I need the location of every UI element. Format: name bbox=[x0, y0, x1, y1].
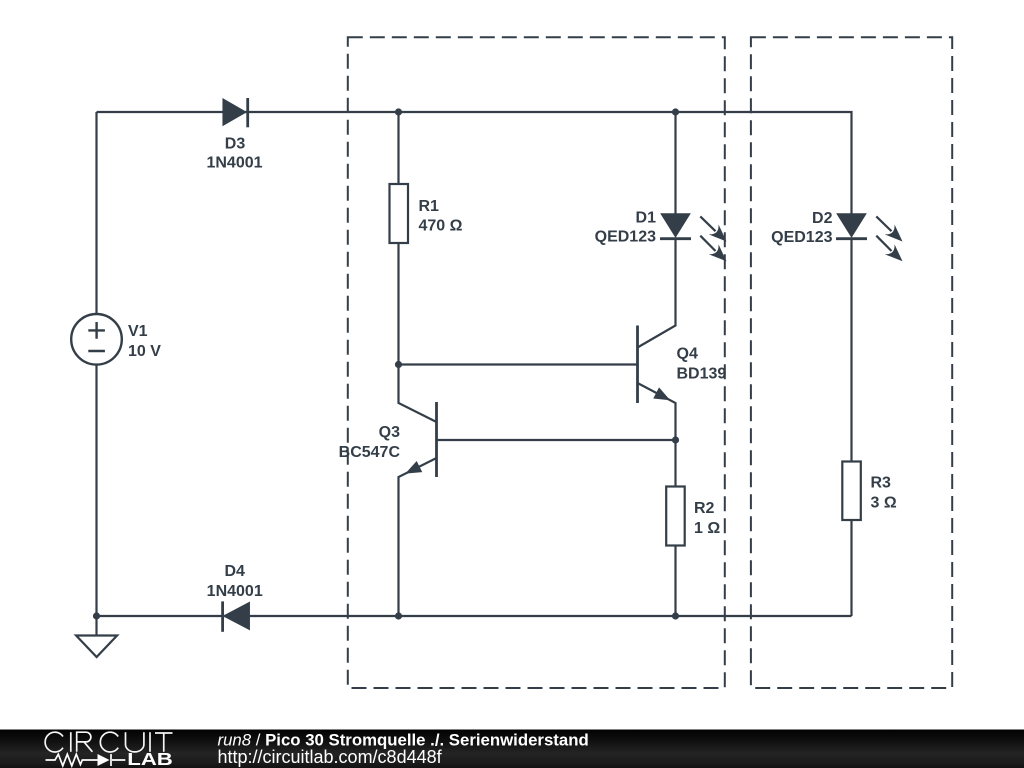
svg-text:BC547C: BC547C bbox=[339, 444, 401, 461]
svg-text:1N4001: 1N4001 bbox=[207, 583, 263, 600]
svg-text:1N4001: 1N4001 bbox=[206, 155, 262, 172]
svg-text:D1: D1 bbox=[636, 210, 657, 227]
svg-text:R1: R1 bbox=[419, 198, 440, 215]
svg-text:QED123: QED123 bbox=[771, 229, 832, 246]
svg-text:V1: V1 bbox=[128, 323, 148, 340]
svg-text:LAB: LAB bbox=[127, 749, 173, 768]
svg-text:D3: D3 bbox=[225, 136, 246, 153]
svg-text:BD139: BD139 bbox=[677, 366, 727, 383]
svg-text:3 Ω: 3 Ω bbox=[871, 495, 897, 512]
svg-text:D2: D2 bbox=[812, 210, 833, 227]
svg-text:R3: R3 bbox=[871, 475, 892, 492]
svg-text:QED123: QED123 bbox=[595, 229, 656, 246]
svg-text:470 Ω: 470 Ω bbox=[419, 218, 463, 235]
svg-text:Q4: Q4 bbox=[677, 346, 698, 363]
svg-text:R2: R2 bbox=[694, 500, 715, 517]
svg-text:D4: D4 bbox=[224, 563, 245, 580]
svg-text:10 V: 10 V bbox=[128, 343, 161, 360]
svg-text:Q3: Q3 bbox=[379, 424, 400, 441]
svg-text:1 Ω: 1 Ω bbox=[694, 520, 720, 537]
svg-text:http://circuitlab.com/c8d448f: http://circuitlab.com/c8d448f bbox=[218, 747, 443, 767]
